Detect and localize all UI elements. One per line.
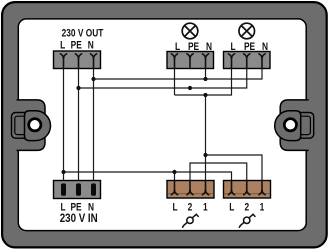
wire switch1 terminal 2 to switch2 terminal 2	[190, 163, 247, 181]
switch S2	[239, 214, 255, 227]
svg-text:L: L	[229, 201, 234, 213]
svg-text:N: N	[206, 41, 212, 53]
node PE bus tap	[76, 86, 80, 90]
wire lamp1 L drop	[174, 69, 176, 96]
switch2 terminal block	[224, 181, 271, 199]
wire PE vertical	[78, 69, 80, 184]
lamp2 terminal block	[224, 52, 271, 69]
switch S1	[183, 214, 199, 227]
node lamp1 PE junction	[188, 86, 192, 90]
node lamp feed junction	[203, 93, 207, 97]
wire lamp1 N drop	[205, 69, 207, 80]
230V IN terminal block	[54, 181, 101, 199]
svg-text:230 V IN: 230 V IN	[60, 213, 98, 226]
left tab screw ear	[25, 111, 51, 141]
switch2 block contacts L 2 1	[228, 181, 234, 195]
wire switch1 L stub	[174, 172, 176, 181]
wire lamp link to lamp2 L	[175, 69, 232, 96]
left mounting tab	[17, 100, 46, 150]
svg-text:PE: PE	[244, 41, 256, 53]
right tab clip bracket	[297, 113, 314, 139]
svg-text:2: 2	[244, 201, 249, 213]
lamp2 block contacts L PE N	[228, 54, 234, 69]
svg-text:L: L	[60, 40, 65, 52]
node switch1 L junction	[172, 170, 176, 174]
lamp E1	[182, 23, 198, 39]
right tab screw ear	[275, 111, 301, 141]
junction dots	[61, 77, 207, 174]
svg-text:N: N	[262, 41, 268, 53]
node switch2-1 branch junction	[203, 153, 207, 157]
IN block contact bars L PE N	[61, 183, 66, 195]
right mounting tab	[275, 100, 314, 150]
wire N bus to lamp2 N	[94, 69, 263, 80]
wire lamp feed drop to switch1 terminal 1	[205, 95, 207, 181]
wire PE bus to lamp2 PE	[79, 69, 247, 89]
wire N vertical	[93, 69, 95, 184]
svg-text:230 V OUT: 230 V OUT	[62, 27, 104, 39]
OUT block contacts L PE N	[60, 54, 66, 69]
svg-text:1: 1	[260, 201, 265, 213]
lamp1 terminal block	[167, 52, 214, 69]
svg-text:PE: PE	[71, 40, 83, 52]
svg-text:1: 1	[203, 201, 208, 213]
node lamp1 N junction	[203, 77, 207, 81]
switch1 terminal block	[167, 181, 214, 199]
node L tap	[61, 170, 65, 174]
wire L vertical (230V OUT to 230V IN)	[63, 69, 65, 184]
svg-text:PE: PE	[188, 41, 200, 53]
lamp1 block contacts L PE N	[171, 54, 177, 69]
lamp E2	[239, 23, 255, 39]
left tab clip bracket	[12, 113, 29, 139]
svg-text:L: L	[230, 41, 235, 53]
svg-text:2: 2	[188, 201, 193, 213]
svg-text:N: N	[88, 40, 94, 52]
wire branch to switch2 terminal 1	[206, 155, 263, 181]
230V OUT terminal block	[54, 51, 101, 69]
node N bus tap	[91, 77, 95, 81]
wire L feed to switch commons	[64, 172, 232, 181]
right tab screw hole	[284, 119, 296, 131]
left tab screw hole	[29, 119, 41, 131]
svg-text:L: L	[175, 41, 180, 53]
switch1 block contacts L 2 1	[171, 181, 177, 195]
svg-text:L: L	[172, 201, 177, 213]
box interior	[18, 19, 306, 231]
